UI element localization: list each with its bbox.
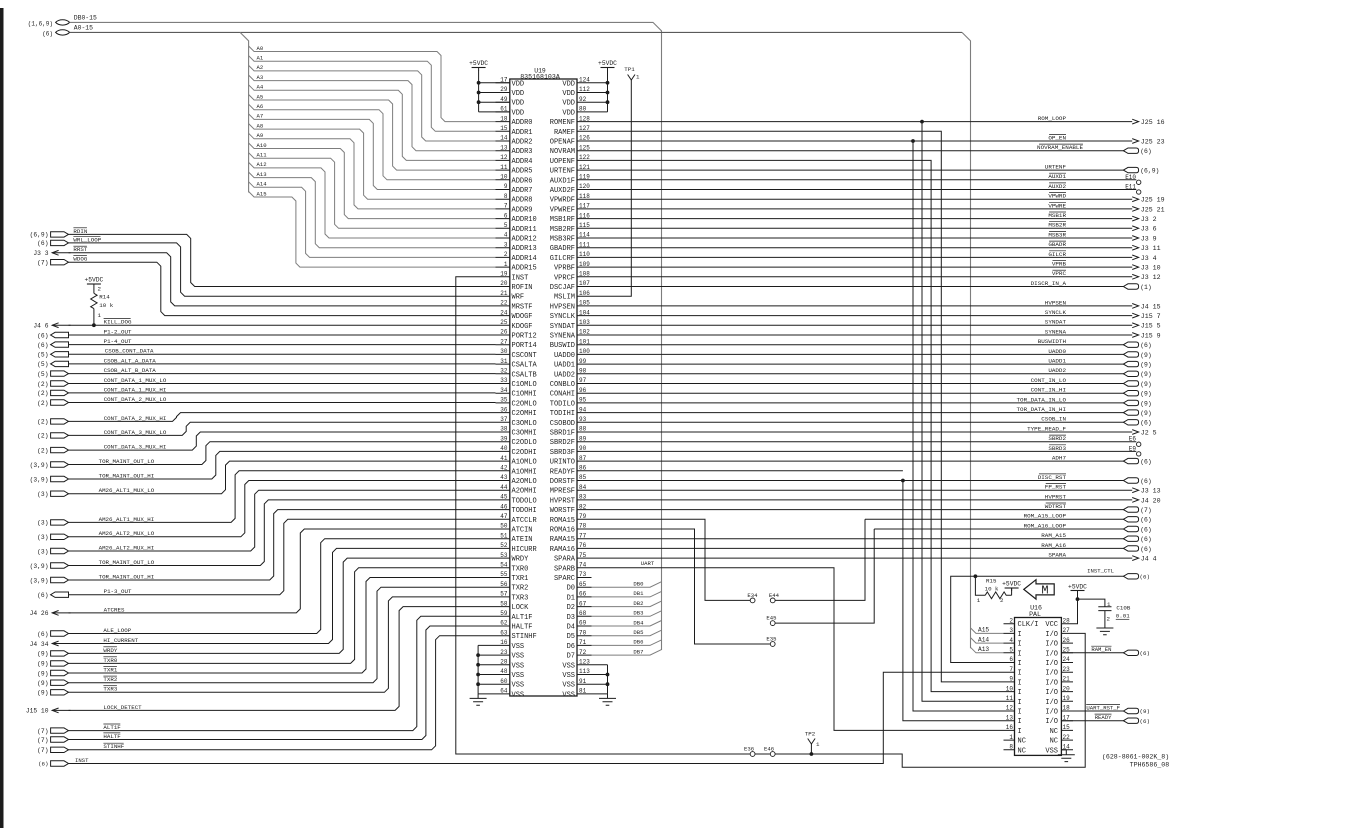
svg-text:STINHF: STINHF [103,743,124,750]
svg-text:39: 39 [500,435,508,442]
svg-text:E10: E10 [1125,174,1136,181]
svg-text:124: 124 [579,77,590,84]
svg-text:A8: A8 [257,122,264,129]
svg-text:(3,9): (3,9) [30,476,49,483]
svg-text:WDOG: WDOG [73,256,87,263]
svg-text:STINHF: STINHF [512,633,537,641]
svg-text:E11: E11 [1125,184,1136,191]
svg-text:J4 20: J4 20 [1141,497,1161,504]
svg-text:I: I [1018,670,1022,678]
svg-text:7: 7 [504,203,508,210]
net CSOB_CONT_DATA left stub and wire [51,352,69,357]
svg-text:VSS: VSS [512,643,525,651]
wire ROMENF branch down to U16 pin11 [920,120,924,124]
svg-text:I: I [1018,709,1022,717]
svg-text:(6): (6) [1140,478,1152,485]
svg-text:CLK/I: CLK/I [1018,621,1039,629]
svg-text:1: 1 [816,741,820,748]
svg-text:CONAHI: CONAHI [550,391,575,399]
svg-text:ADDR4: ADDR4 [512,158,533,166]
bus DB0-15 trunk wire [70,22,662,650]
svg-text:28: 28 [500,659,508,666]
svg-text:TOR_MAINT_OUT_HI: TOR_MAINT_OUT_HI [99,573,155,580]
net INST_CTL wire U16 pin6 to stub [951,576,1124,662]
svg-text:(3,9): (3,9) [30,577,49,584]
svg-text:101: 101 [579,338,590,345]
svg-text:J3 12: J3 12 [1141,274,1161,281]
svg-text:SYNCLK: SYNCLK [1045,309,1067,316]
svg-text:CONT_IN_HI: CONT_IN_HI [1031,387,1066,394]
svg-text:6: 6 [1009,656,1013,663]
svg-text:37: 37 [500,416,508,423]
svg-text:A2: A2 [257,64,264,71]
svg-text:68: 68 [579,610,587,617]
svg-text:28: 28 [1063,617,1071,624]
svg-text:1: 1 [504,261,508,268]
svg-text:35: 35 [500,397,508,404]
svg-text:I/O: I/O [1045,699,1058,707]
svg-text:10 k: 10 k [99,302,113,309]
svg-text:I/O: I/O [1045,718,1058,726]
svg-text:DB1: DB1 [633,590,644,597]
svg-text:1: 1 [1107,601,1111,608]
svg-text:CONT_DATA_1_MUX_HI: CONT_DATA_1_MUX_HI [104,386,167,393]
svg-text:SYNDAT: SYNDAT [1045,319,1067,326]
svg-text:105: 105 [579,300,590,307]
svg-text:DB5: DB5 [633,629,643,636]
wire +5VDC to U19 VDD pins 17/29/49/61 [479,70,510,112]
svg-text:(6): (6) [1140,459,1152,466]
svg-text:VSS: VSS [512,672,525,680]
svg-text:ADDR3: ADDR3 [512,148,533,156]
svg-text:3: 3 [1009,627,1013,634]
svg-text:MSB1RF: MSB1RF [550,216,575,224]
svg-text:J15 5: J15 5 [1141,323,1161,330]
svg-text:60: 60 [500,678,508,685]
svg-text:RRST: RRST [73,246,87,253]
svg-text:(7): (7) [37,260,48,267]
wire U19 right VSS comb [592,665,608,694]
svg-text:VSS: VSS [512,682,525,690]
svg-text:GBADRF: GBADRF [550,245,575,253]
svg-text:128: 128 [579,115,590,122]
svg-text:108: 108 [579,271,590,278]
net ALT1F left stub and wire [51,728,69,733]
svg-text:48: 48 [500,668,508,675]
svg-text:LOCK: LOCK [512,604,530,612]
svg-text:J3 6: J3 6 [1141,226,1157,233]
svg-text:VSS: VSS [562,672,575,680]
svg-text:A2OMHI: A2OMHI [512,488,537,496]
svg-text:TODOHI: TODOHI [512,507,537,515]
svg-text:46: 46 [500,503,508,510]
wire READYF stub [592,470,903,472]
wire A15 bus entry to U16 [971,628,1004,634]
svg-text:87: 87 [579,455,587,462]
net AM26_ALT1_MUX_HI left stub and wire [51,520,69,525]
svg-text:PAL: PAL [1029,611,1041,618]
svg-text:VSS: VSS [562,682,575,690]
IC U19 pin numbers [500,77,590,695]
svg-text:94: 94 [579,406,587,413]
svg-text:ALT1F: ALT1F [103,724,121,731]
svg-text:(6,9): (6,9) [1140,168,1159,175]
svg-text:R15: R15 [986,578,997,585]
svg-text:89: 89 [579,435,587,442]
ground left VSS [470,694,487,705]
svg-text:CONBLO: CONBLO [550,381,575,389]
svg-text:ADDR13: ADDR13 [512,245,537,253]
svg-text:80: 80 [579,106,587,113]
svg-text:VDD: VDD [562,100,575,108]
bus stub DB0-15 connector [56,20,70,25]
svg-text:TODOLO: TODOLO [512,497,537,505]
svg-text:NOVRAM: NOVRAM [550,148,575,156]
svg-text:+5VDC: +5VDC [1068,583,1087,590]
svg-text:ADDR0: ADDR0 [512,119,533,127]
svg-text:27: 27 [1063,627,1071,634]
svg-text:TXR0: TXR0 [512,565,529,573]
svg-text:64: 64 [500,688,508,695]
svg-text:(9): (9) [37,651,48,658]
resistor R14 10k pull-up [93,287,95,293]
svg-text:99: 99 [579,358,587,365]
svg-text:RAMA16: RAMA16 [550,546,575,554]
svg-text:115: 115 [579,222,590,229]
svg-text:(3,9): (3,9) [30,563,49,570]
svg-text:D3: D3 [567,614,575,622]
svg-text:ROMA16: ROMA16 [550,527,575,535]
svg-text:CSOB_IN: CSOB_IN [1041,416,1066,423]
svg-text:AM26_ALT1_MUX_HI: AM26_ALT1_MUX_HI [99,516,155,523]
svg-text:114: 114 [579,232,590,239]
svg-text:111: 111 [579,241,590,248]
ground under C10B [1096,624,1113,635]
svg-text:SPARB: SPARB [554,565,575,573]
svg-text:CONT_DATA_2_MUX_HI: CONT_DATA_2_MUX_HI [104,415,167,422]
svg-text:A0: A0 [257,45,264,52]
svg-text:126: 126 [579,135,590,142]
svg-text:HICURR: HICURR [512,546,538,554]
net TOR_MAINT_OUT_LO left stub and wire [51,563,69,568]
svg-text:(6): (6) [37,240,48,247]
svg-text:MSLIM: MSLIM [554,294,575,302]
svg-text:CSOBOD: CSOBOD [550,420,575,428]
svg-text:(3): (3) [37,491,48,498]
svg-text:77: 77 [579,532,587,539]
svg-text:HVPSEN: HVPSEN [550,303,575,311]
svg-text:E46: E46 [764,745,774,752]
svg-text:26: 26 [1063,637,1071,644]
svg-text:UADD0: UADD0 [1048,348,1066,355]
svg-text:CONT_DATA_3_MUX_LO: CONT_DATA_3_MUX_LO [104,429,167,436]
svg-text:45: 45 [500,494,508,501]
svg-text:CSOB_CONT_DATA: CSOB_CONT_DATA [105,348,154,355]
svg-text:WDOGF: WDOGF [512,313,533,321]
svg-text:24: 24 [500,309,508,316]
svg-text:(2): (2) [37,381,48,388]
svg-text:81: 81 [579,688,587,695]
svg-text:CONT_IN_LO: CONT_IN_LO [1031,377,1067,384]
svg-text:74: 74 [579,562,587,569]
logo M arrow symbol [1024,580,1054,599]
svg-text:12: 12 [1006,705,1014,712]
svg-text:SYNDAT: SYNDAT [550,323,575,331]
svg-text:20: 20 [500,280,508,287]
svg-text:NC: NC [1050,728,1058,736]
svg-text:VCC: VCC [1045,621,1058,629]
svg-text:(6): (6) [38,761,48,768]
svg-text:ATEIN: ATEIN [512,536,533,544]
bus A0-15 vertical to U16 area [962,32,971,648]
svg-text:C3OMHI: C3OMHI [512,430,537,438]
wire UOPENF down to U16 pin10 [592,160,1004,691]
net P1-2_OUT left stub and wire [51,332,69,337]
svg-text:(2): (2) [37,390,48,397]
svg-text:SBRD2F: SBRD2F [550,439,575,447]
ground U16 VSS pin14 [1061,749,1066,751]
svg-text:VDD: VDD [512,90,525,98]
svg-text:(2): (2) [37,433,48,440]
svg-text:2: 2 [1107,616,1111,623]
net HI_CURRENT left stub and wire [52,641,58,646]
svg-text:107: 107 [579,280,590,287]
svg-text:D4: D4 [567,624,575,632]
svg-text:RAM_EN: RAM_EN [1091,646,1111,653]
net WDOG left stub and wire [51,260,69,265]
svg-text:TXR3: TXR3 [103,686,117,693]
net P1-4_OUT left stub and wire [51,342,69,347]
svg-text:2: 2 [98,286,102,293]
wire OPENAF branch down to U16 pin12 [911,139,915,143]
svg-text:TOR_MAINT_OUT_LO: TOR_MAINT_OUT_LO [99,559,155,566]
svg-text:INST: INST [75,757,89,764]
svg-text:AM26_ALT2_MUX_HI: AM26_ALT2_MUX_HI [99,544,155,551]
net CONT_DATA_2_MUX_HI left stub and wire [51,419,69,424]
svg-text:(3): (3) [37,534,48,541]
svg-text:TXR0: TXR0 [103,657,117,664]
svg-text:10: 10 [500,174,508,181]
svg-text:(3,9): (3,9) [30,462,49,469]
svg-text:(1): (1) [1140,284,1152,291]
svg-text:TODIHI: TODIHI [550,410,575,418]
wire ROMA16 pin to E35 [592,529,771,644]
svg-text:67: 67 [579,600,587,607]
svg-text:110: 110 [579,251,590,258]
net KILL_DOG left stub and wire [52,323,58,328]
net CONT_DATA_3_MUX_HI left stub and wire [51,447,69,452]
svg-text:1: 1 [1009,734,1013,741]
svg-text:(6): (6) [1140,546,1152,553]
svg-text:TOR_MAINT_OUT_LO: TOR_MAINT_OUT_LO [99,458,155,465]
svg-text:HVPSEN: HVPSEN [1045,299,1067,306]
IC U16 PAL body [1015,618,1062,756]
svg-text:NC: NC [1050,738,1058,746]
svg-text:TOR_DATA_IN_HI: TOR_DATA_IN_HI [1017,406,1067,413]
svg-text:72: 72 [579,649,587,656]
svg-text:DSCJAF: DSCJAF [550,284,575,292]
svg-text:SBRD1F: SBRD1F [550,430,575,438]
svg-text:53: 53 [500,552,508,559]
svg-text:DB4: DB4 [633,619,644,626]
svg-text:I: I [1018,728,1022,736]
wire +5VDC to U16 pin28 [1073,594,1078,624]
svg-text:8: 8 [1009,744,1013,751]
svg-text:120: 120 [579,183,590,190]
svg-text:VPRB: VPRB [1052,261,1067,268]
svg-text:32: 32 [500,368,508,375]
svg-text:MSB3RF: MSB3RF [550,236,575,244]
svg-text:J25 23: J25 23 [1141,138,1165,145]
svg-text:VPWRDF: VPWRDF [550,197,575,205]
svg-text:HI_CURRENT: HI_CURRENT [103,637,138,644]
svg-text:26: 26 [500,329,508,336]
svg-text:MSB3R: MSB3R [1048,231,1066,238]
svg-text:127: 127 [579,125,590,132]
svg-text:MSB1R: MSB1R [1048,212,1066,219]
svg-text:J15 9: J15 9 [1141,332,1161,339]
svg-text:16: 16 [500,639,508,646]
svg-text:J15 10: J15 10 [26,708,49,715]
net CONT_DATA_3_MUX_LO left stub and wire [51,433,69,438]
svg-text:A12: A12 [257,161,267,168]
svg-text:(9): (9) [1140,352,1152,359]
net INST bottom wire to U16 pin7 [51,761,69,766]
svg-text:ADDR9: ADDR9 [512,206,533,214]
svg-text:8: 8 [504,193,508,200]
svg-text:6: 6 [504,212,508,219]
svg-text:KILL_DOG: KILL_DOG [104,319,132,326]
svg-text:100: 100 [579,348,590,355]
svg-text:(9): (9) [37,670,48,677]
svg-text:FP_RST: FP_RST [1045,484,1067,491]
svg-text:TXR2: TXR2 [103,676,117,683]
svg-text:VDD: VDD [512,80,525,88]
svg-text:I/O: I/O [1045,709,1058,717]
svg-text:D7: D7 [567,653,575,661]
svg-text:ADDR11: ADDR11 [512,226,537,234]
svg-text:GILCRF: GILCRF [550,255,575,263]
svg-text:MRSTF: MRSTF [512,303,533,311]
svg-text:(6): (6) [1140,342,1152,349]
svg-text:INST_CTL: INST_CTL [1087,568,1114,575]
svg-text:A1OMHI: A1OMHI [512,468,537,476]
svg-text:WRF: WRF [512,294,525,302]
svg-text:C2ODLO: C2ODLO [512,439,537,447]
svg-text:(6): (6) [1140,536,1152,543]
svg-text:LOCK_DETECT: LOCK_DETECT [103,704,142,711]
svg-text:58: 58 [500,600,508,607]
net ALE_LOOP left stub and wire [51,631,69,636]
svg-text:43: 43 [500,474,508,481]
net READY wire U16 pin17 [1061,720,1124,722]
svg-text:I: I [1018,679,1022,687]
svg-text:(9): (9) [1140,410,1152,417]
net HALTF left stub and wire [51,737,69,742]
svg-text:VSS: VSS [562,662,575,670]
svg-text:83: 83 [579,494,587,501]
svg-text:24: 24 [1063,656,1071,663]
svg-text:VSS: VSS [1045,747,1058,755]
net TOR_MAINT_OUT_HI left stub and wire [51,476,69,481]
svg-text:VSS: VSS [562,691,575,699]
wire A14 bus entry to U16 [971,638,1004,644]
svg-text:117: 117 [579,203,590,210]
svg-text:CSOB_ALT_B_DATA: CSOB_ALT_B_DATA [104,367,157,374]
svg-text:(6,9): (6,9) [30,232,49,239]
svg-text:J25 21: J25 21 [1141,206,1165,213]
svg-text:21: 21 [1063,676,1071,683]
net CONT_DATA_2_MUX_LO left stub and wire [51,400,69,405]
svg-text:ATCRES: ATCRES [104,606,125,613]
svg-text:22: 22 [1063,734,1071,741]
svg-text:UART_RST_F: UART_RST_F [1086,704,1120,711]
jumper post E44 [770,598,775,603]
svg-text:DISCR_IN_A: DISCR_IN_A [1031,280,1067,287]
svg-text:15: 15 [1063,724,1071,731]
svg-text:125: 125 [579,144,590,151]
svg-text:36: 36 [500,406,508,413]
svg-text:55: 55 [500,571,508,578]
svg-text:A2OMLO: A2OMLO [512,478,537,486]
svg-text:123: 123 [579,659,590,666]
svg-text:42: 42 [500,465,508,472]
svg-text:(6): (6) [1140,420,1152,427]
svg-text:A3: A3 [257,74,264,81]
svg-text:ROMENF: ROMENF [550,119,575,127]
IC U16 pin stubs [1004,624,1074,750]
svg-text:(7): (7) [37,728,48,735]
wire E44 up to ROM_A15_LOOP stub [775,519,865,600]
svg-text:CSALTB: CSALTB [512,371,537,379]
svg-text:(7): (7) [37,747,48,754]
svg-text:M: M [1041,584,1048,598]
svg-text:10 k: 10 k [985,585,999,592]
svg-text:HALTF: HALTF [103,733,121,740]
svg-text:85: 85 [579,474,587,481]
svg-text:ADDR1: ADDR1 [512,129,533,137]
svg-text:A5: A5 [257,93,264,100]
svg-text:(6): (6) [37,342,48,349]
svg-text:(9): (9) [37,680,48,687]
svg-text:KDOGF: KDOGF [512,323,533,331]
svg-text:A13: A13 [257,171,267,178]
svg-text:A11: A11 [257,152,268,159]
svg-text:DORSTF: DORSTF [550,478,575,486]
ground right VSS [599,694,616,705]
svg-text:VPWRD: VPWRD [1048,193,1066,200]
svg-text:14: 14 [500,135,508,142]
svg-text:VDD: VDD [512,100,525,108]
svg-text:I/O: I/O [1045,689,1058,697]
svg-text:AM26_ALT1_MUX_LO: AM26_ALT1_MUX_LO [99,487,155,494]
svg-text:J4 34: J4 34 [30,641,49,648]
svg-text:URINTO: URINTO [550,459,575,467]
svg-text:(628-8061-002K_8): (628-8061-002K_8) [1102,754,1169,761]
svg-text:DB6: DB6 [633,639,643,646]
svg-text:57: 57 [500,591,508,598]
svg-text:97: 97 [579,377,587,384]
svg-text:SPARC: SPARC [554,575,575,583]
svg-text:21: 21 [500,290,508,297]
svg-text:VPRC: VPRC [1052,270,1067,277]
jumper post E46 [770,752,775,757]
svg-text:ADDR6: ADDR6 [512,177,533,185]
net CSOB_ALT_A_DATA left stub and wire [51,361,69,366]
svg-text:CONT_DATA_3_MUX_HI: CONT_DATA_3_MUX_HI [104,444,167,451]
svg-text:(6): (6) [1140,650,1150,657]
wire RAMEF down to U16 pin9 [592,131,1004,682]
